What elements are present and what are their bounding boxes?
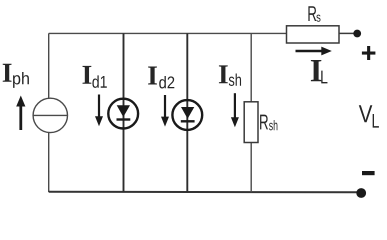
arrow Id2 (down): [161, 95, 169, 127]
label Id1: [83, 66, 107, 88]
label VL: [359, 105, 379, 127]
diode D1 cathode bar: [117, 118, 131, 120]
diode D2 cathode bar: [181, 120, 195, 122]
diode D1 triangle: [117, 105, 130, 117]
label Id2: [148, 67, 174, 89]
diode D2 triangle: [181, 107, 194, 119]
current source Iph circle: [33, 98, 67, 132]
arrow Id1 (down): [95, 95, 103, 127]
label IL: [311, 60, 328, 83]
wire diode D1 branch: [123, 33, 125, 192]
resistor Rsh rectangle: [244, 102, 258, 143]
minus sign: [362, 171, 375, 175]
diode D2 circle: [172, 100, 202, 130]
node negative terminal dot: [356, 188, 366, 198]
node positive terminal dot: [353, 30, 361, 38]
wire left branch lower: [48, 133, 50, 193]
wire diode D2 branch: [186, 33, 188, 192]
current source horizontal bar: [33, 114, 67, 116]
arrow Ish (down): [231, 93, 239, 127]
wire Rs to positive terminal: [339, 32, 354, 34]
label Rs: [308, 6, 320, 22]
wire shunt branch lower: [250, 143, 252, 193]
wire left branch upper: [48, 33, 50, 98]
diode D1 circle: [108, 99, 138, 129]
label Rsh: [260, 115, 277, 131]
wire bottom bus: [49, 191, 357, 194]
label Iph: [3, 64, 29, 88]
arrow Iph (up): [16, 96, 25, 131]
wire shunt branch upper: [250, 33, 252, 102]
arrow IL (right): [296, 47, 332, 56]
resistor Rs rectangle: [287, 26, 340, 43]
wire top bus: [49, 32, 287, 34]
label Ish: [219, 65, 241, 86]
plus sign: [362, 46, 376, 60]
